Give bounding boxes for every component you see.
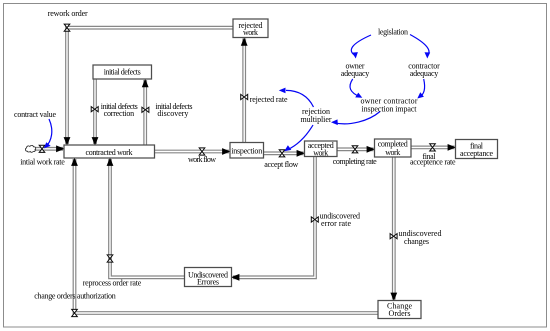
svg-text:rejected rate: rejected rate <box>250 95 288 104</box>
arrowhead impact->rejection multiplier blue <box>331 119 338 125</box>
svg-text:inspection: inspection <box>231 146 262 155</box>
arrowhead rejection multiplier->rejected rate blue <box>279 88 286 94</box>
arrowhead legislation->owner adequacy blue <box>352 52 358 58</box>
arrowhead contractor adequacy->impact blue <box>417 92 424 98</box>
wire final acceptence rate pipe: completed work -> final acceptance <box>411 145 455 149</box>
svg-text:Errores: Errores <box>197 278 219 287</box>
svg-text:work: work <box>385 148 400 157</box>
wire accept flow pipe: inspection -> accepted work <box>264 151 304 155</box>
arrow legislation -> owner adequacy <box>351 35 371 56</box>
valve reprocess order rate <box>107 255 113 262</box>
wire initial defects correction pipe: initial defects -> contracted work <box>93 79 97 144</box>
valve intial work rate <box>39 145 45 152</box>
valve completing rate <box>352 146 358 153</box>
valve work flow <box>199 148 205 155</box>
arrowhead rejection multiplier->accept flow blue <box>284 145 291 151</box>
stock final acceptance <box>456 140 498 159</box>
svg-text:contracted work: contracted work <box>86 148 133 157</box>
arrowhead legislation->contractor adequacy blue <box>425 52 431 58</box>
arrowhead undiscovered error rate into Undiscovered Errores (left) <box>231 274 239 281</box>
arrow contractor adequacy -> owner contractor inspection impact <box>419 79 424 97</box>
svg-text:discovery: discovery <box>157 109 188 118</box>
wire initial defects discovery pipe: contracted work -> initial defects <box>143 80 147 145</box>
svg-text:multiplier: multiplier <box>301 115 332 124</box>
arrow legislation -> contractor adequacy <box>410 35 429 57</box>
arrowhead undiscovered changes into Change Orders (down) <box>390 293 397 301</box>
svg-text:intial work rate: intial work rate <box>20 157 65 166</box>
arrow rejection multiplier -> accept flow <box>287 125 313 150</box>
arrowhead rejected rate into rejected work (up) <box>241 37 248 45</box>
wire rework order pipe: rejected work -> contracted work <box>67 28 233 144</box>
svg-text:accept flow: accept flow <box>264 160 298 169</box>
arrowhead initial defects correction into contracted work (down) <box>92 137 99 145</box>
svg-text:acceptance: acceptance <box>460 149 493 158</box>
wire initial work rate pipe: cloud -> contracted work <box>33 147 63 151</box>
svg-text:work: work <box>313 148 328 157</box>
wire change orders authorization pipe: Change Orders -> contracted work <box>75 159 379 313</box>
svg-text:initial defects: initial defects <box>104 68 141 77</box>
svg-text:error rate: error rate <box>321 219 351 228</box>
arrowhead change orders authorization into contracted work (up) <box>71 158 78 166</box>
svg-text:rework order: rework order <box>48 9 88 18</box>
stock inspection <box>230 143 264 159</box>
arrow contract value -> intial work rate <box>46 119 52 147</box>
wire undiscovered error rate pipe: accepted work -> Undiscovered Errores <box>233 157 315 278</box>
stock Change Orders <box>378 301 421 319</box>
svg-text:completing rate: completing rate <box>333 157 377 166</box>
valve change orders authorization <box>72 309 78 316</box>
valve initial defects correction <box>91 107 98 112</box>
valve rejected rate <box>241 94 248 99</box>
svg-text:contract value: contract value <box>14 110 56 119</box>
stock Undiscovered Errores <box>185 268 232 287</box>
wire completing rate pipe: accepted work -> completed work <box>337 147 374 151</box>
arrow rejection multiplier -> rejected rate <box>286 90 314 107</box>
arrowhead contract value blue <box>44 142 51 148</box>
arrowhead work flow into inspection (right) <box>222 148 230 155</box>
svg-text:change orders authorization: change orders authorization <box>34 292 116 301</box>
svg-text:work flow: work flow <box>188 155 216 164</box>
arrowhead accept flow into accepted work (right) <box>297 150 305 157</box>
arrowhead initial defects discovery into initial defects (up) <box>142 79 149 87</box>
arrowhead rework order into contracted work (down) <box>64 137 71 145</box>
svg-text:correction: correction <box>104 109 134 118</box>
svg-text:reprocess order rate: reprocess order rate <box>83 278 142 287</box>
stock initial defects <box>93 65 152 79</box>
svg-text:acceptence rate: acceptence rate <box>410 158 456 167</box>
svg-text:inspection impact: inspection impact <box>362 105 418 114</box>
svg-text:work: work <box>243 28 258 37</box>
svg-text:changes: changes <box>404 237 429 246</box>
arrowhead completing rate into completed work (right) <box>367 146 375 153</box>
cloud source for initial work rate <box>25 145 35 152</box>
arrowhead reprocess order rate into contracted work (up) <box>107 158 114 166</box>
arrow owner adequacy -> owner contractor inspection impact <box>350 79 360 97</box>
arrowhead initial work rate into contracted work (right) <box>56 145 64 152</box>
stock accepted work <box>305 141 338 157</box>
stock rejected work <box>233 19 268 38</box>
svg-text:adequacy: adequacy <box>410 69 439 78</box>
valve accept flow <box>279 150 285 157</box>
svg-text:legislation: legislation <box>378 27 408 36</box>
wire undiscovered changes pipe: completed work -> Change Orders <box>392 157 396 300</box>
valve final acceptence rate <box>430 144 436 151</box>
stock contracted work <box>64 145 155 158</box>
arrowhead owner adequacy->impact blue <box>355 93 362 98</box>
wire reprocess order rate pipe: Undiscovered Errores -> contracted work <box>110 159 185 277</box>
stock completed work <box>375 139 412 157</box>
svg-text:adequacy: adequacy <box>341 69 370 78</box>
valve undiscovered changes <box>390 234 397 239</box>
valve undiscovered error rate <box>311 217 318 222</box>
svg-text:Orders: Orders <box>389 309 411 318</box>
arrow owner contractor inspection impact -> rejection multiplier <box>334 112 381 124</box>
wire work flow pipe: contracted work -> inspection <box>155 150 230 154</box>
wire rejected rate pipe: inspection -> rejected work <box>242 39 246 143</box>
arrowhead final acceptence rate into final acceptance (right) <box>448 144 456 151</box>
valve rework order <box>64 24 70 31</box>
valve initial defects discovery <box>142 107 149 112</box>
